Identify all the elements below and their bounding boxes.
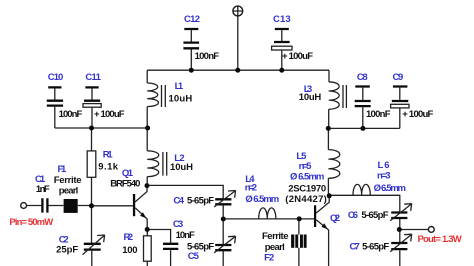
svg-text:pearl: pearl [59, 185, 79, 196]
svg-text:100nF: 100nF [195, 51, 220, 62]
svg-text:Pout= 1.3W: Pout= 1.3W [418, 234, 462, 245]
svg-text:C3: C3 [173, 219, 183, 230]
svg-text:100nF: 100nF [366, 109, 391, 120]
svg-text:+ 100uF: + 100uF [402, 109, 433, 120]
svg-text:+ 100uF: + 100uF [94, 109, 125, 120]
svg-text:5-65pF: 5-65pF [362, 242, 389, 253]
svg-text:25pF: 25pF [56, 244, 78, 255]
svg-text:9.1k: 9.1k [98, 162, 119, 173]
svg-text:(2N4427): (2N4427) [285, 194, 327, 205]
svg-text:pearl: pearl [265, 242, 285, 253]
svg-text:Q2: Q2 [330, 213, 340, 224]
svg-text:C6: C6 [348, 210, 358, 221]
svg-text:BRF540: BRF540 [110, 179, 140, 190]
svg-text:F2: F2 [264, 253, 274, 264]
svg-text:R1: R1 [103, 150, 114, 161]
svg-text:Ø 6.5mm: Ø 6.5mm [290, 172, 324, 183]
svg-text:+ 100uF: + 100uF [282, 51, 313, 62]
svg-text:L6: L6 [378, 160, 390, 171]
svg-text:R2: R2 [124, 232, 134, 243]
svg-text:n=3: n=3 [377, 171, 391, 182]
svg-text:10uH: 10uH [169, 93, 193, 104]
svg-text:1nF: 1nF [36, 184, 50, 195]
svg-text:10nF: 10nF [176, 230, 195, 241]
svg-text:L1: L1 [175, 81, 184, 92]
svg-text:C13: C13 [273, 14, 291, 25]
svg-text:Q1: Q1 [122, 168, 134, 179]
svg-text:n=2: n=2 [245, 183, 257, 194]
svg-text:C11: C11 [85, 72, 101, 83]
svg-text:Ø 6.5mm: Ø 6.5mm [374, 183, 406, 194]
svg-text:C12: C12 [184, 14, 200, 25]
svg-text:C9: C9 [393, 72, 404, 83]
svg-text:10uH: 10uH [299, 92, 322, 103]
svg-text:C5: C5 [188, 251, 200, 262]
svg-text:Ferrite: Ferrite [262, 231, 289, 242]
svg-text:10uH: 10uH [170, 162, 193, 173]
svg-text:F1: F1 [58, 164, 68, 175]
svg-text:Ferrite: Ferrite [54, 175, 82, 186]
svg-text:C4: C4 [173, 196, 184, 207]
svg-text:Ø 6.5mm: Ø 6.5mm [245, 194, 279, 205]
svg-text:100nF: 100nF [59, 109, 83, 120]
svg-text:100: 100 [122, 245, 137, 256]
svg-text:C8: C8 [357, 72, 368, 83]
svg-text:C7: C7 [350, 242, 360, 253]
svg-text:C10: C10 [48, 72, 64, 83]
svg-text:5-65pF: 5-65pF [361, 210, 388, 221]
svg-text:5-65pF: 5-65pF [187, 196, 214, 207]
svg-text:Pin= 50mW: Pin= 50mW [9, 217, 53, 228]
